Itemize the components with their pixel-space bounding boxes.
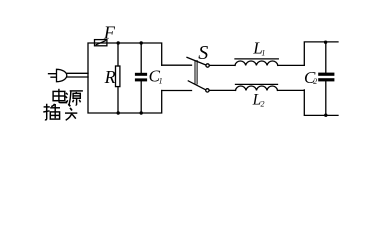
svg-text:F: F: [103, 23, 116, 43]
svg-text:R: R: [104, 67, 116, 87]
svg-text:S: S: [198, 42, 208, 64]
svg-text:1: 1: [159, 76, 163, 85]
svg-text:2: 2: [313, 77, 317, 86]
svg-text:2: 2: [261, 100, 265, 109]
svg-text:1: 1: [261, 49, 265, 58]
